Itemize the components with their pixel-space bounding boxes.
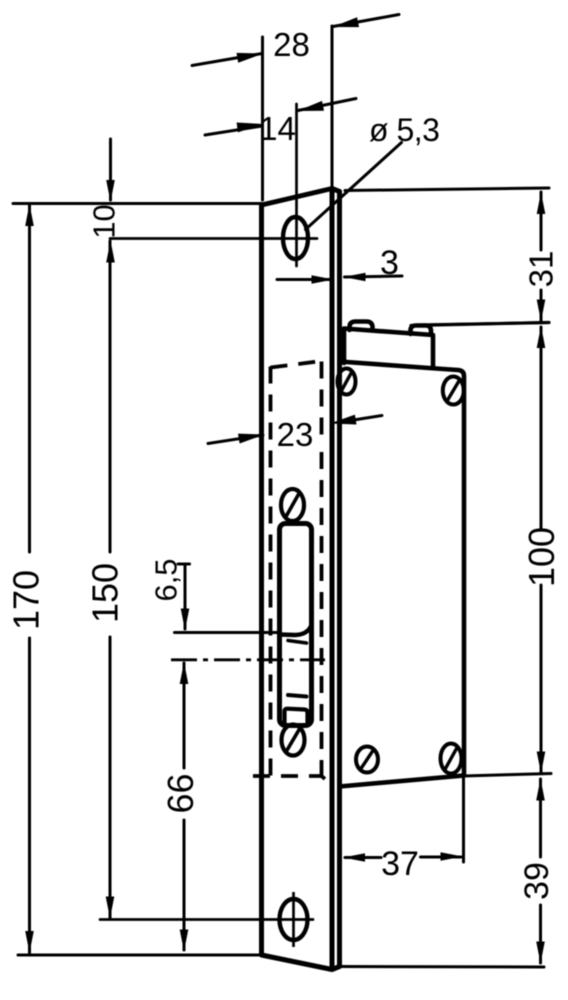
svg-text:170: 170 (6, 570, 47, 630)
svg-text:ø 5,3: ø 5,3 (369, 112, 439, 148)
svg-text:28: 28 (273, 26, 310, 63)
svg-text:39: 39 (518, 862, 556, 900)
svg-text:66: 66 (160, 773, 201, 813)
svg-text:14: 14 (259, 110, 296, 147)
svg-text:37: 37 (381, 845, 419, 883)
svg-text:6,5: 6,5 (149, 558, 184, 601)
svg-text:150: 150 (85, 563, 126, 623)
svg-text:3: 3 (380, 244, 399, 282)
svg-text:100: 100 (521, 527, 562, 587)
svg-text:31: 31 (523, 251, 560, 288)
svg-text:23: 23 (277, 416, 314, 453)
svg-text:10: 10 (87, 204, 122, 238)
